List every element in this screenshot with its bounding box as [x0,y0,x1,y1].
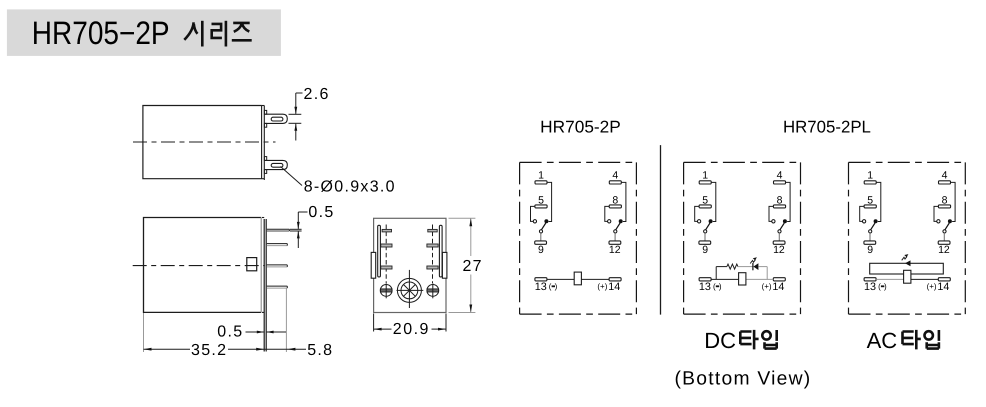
svg-text:9: 9 [867,244,873,256]
svg-text:AC: AC [867,328,898,353]
svg-text:35.2: 35.2 [191,342,227,359]
svg-text:12: 12 [609,244,621,256]
svg-text:0.5: 0.5 [217,324,243,341]
svg-text:5: 5 [702,194,708,206]
svg-text:HR705-2PL: HR705-2PL [783,117,871,136]
svg-text:12: 12 [938,244,950,256]
svg-text:(+): (+) [927,282,937,291]
svg-text:4: 4 [612,170,618,182]
svg-text:1: 1 [538,170,544,182]
svg-text:2.6: 2.6 [304,86,330,103]
svg-text:20.9: 20.9 [393,321,430,338]
svg-text:8: 8 [612,194,618,206]
svg-text:12: 12 [773,244,785,256]
svg-text:13: 13 [699,281,711,293]
svg-text:HR705-2P: HR705-2P [540,118,621,137]
svg-text:8: 8 [777,194,783,206]
svg-text:(+): (+) [762,282,772,291]
svg-text:HR705−2P: HR705−2P [32,15,170,51]
svg-text:14: 14 [937,281,949,293]
svg-text:14: 14 [608,281,620,293]
svg-text:5: 5 [538,194,544,206]
svg-text:1: 1 [867,170,873,182]
svg-text:13: 13 [535,281,547,293]
svg-text:9: 9 [702,244,708,256]
svg-text:5: 5 [867,194,873,206]
svg-text:0.5: 0.5 [308,204,334,221]
svg-text:13: 13 [864,281,876,293]
svg-text:5.8: 5.8 [307,342,333,359]
svg-text:8: 8 [942,194,948,206]
svg-text:(+): (+) [597,282,607,291]
svg-text:1: 1 [702,170,708,182]
svg-text:8-Ø0.9x3.0: 8-Ø0.9x3.0 [304,179,396,196]
svg-text:27: 27 [463,258,483,275]
svg-text:(Bottom View): (Bottom View) [675,369,812,390]
svg-text:9: 9 [538,244,544,256]
svg-text:4: 4 [777,170,783,182]
svg-text:DC: DC [704,328,736,353]
svg-text:14: 14 [772,281,784,293]
svg-text:4: 4 [942,170,948,182]
